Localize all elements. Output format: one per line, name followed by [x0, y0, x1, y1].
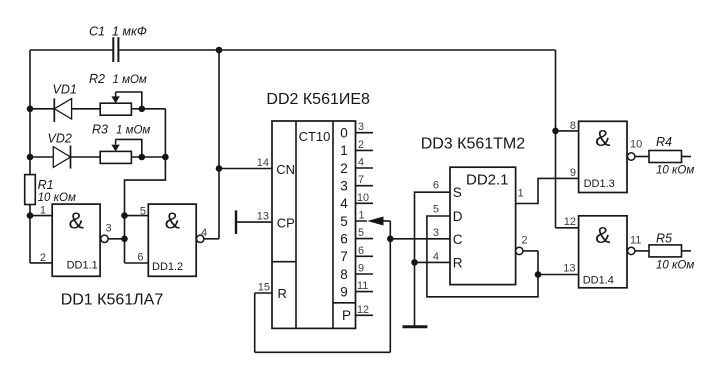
- svg-text:&: &: [595, 222, 610, 248]
- wire R3 right: [131, 156, 165, 158]
- svg-text:DD1.4: DD1.4: [583, 275, 614, 287]
- input bar at CP: [235, 210, 237, 234]
- wire pin12 DD1.4: [556, 227, 579, 229]
- wire R5 out: [682, 250, 692, 252]
- svg-text:7: 7: [358, 174, 364, 186]
- wire left vertical lower: [29, 205, 31, 263]
- svg-text:S: S: [453, 185, 462, 200]
- wire left vertical upper: [29, 50, 31, 175]
- gate DD1.4: [563, 216, 641, 288]
- svg-text:DD2 К561ИЕ8: DD2 К561ИЕ8: [266, 91, 370, 108]
- svg-text:3: 3: [340, 179, 348, 194]
- svg-text:C1: C1: [89, 25, 105, 39]
- wire from arrow to vertical: [381, 220, 390, 222]
- wire R4 out: [682, 156, 692, 158]
- resistor R4: [649, 135, 694, 177]
- svg-text:R: R: [453, 256, 463, 271]
- svg-text:0: 0: [340, 126, 348, 141]
- wire top rail right segment: [119, 49, 555, 51]
- svg-text:11: 11: [630, 235, 641, 247]
- svg-text:4: 4: [340, 196, 348, 211]
- svg-text:10 кОм: 10 кОм: [38, 192, 76, 204]
- svg-text:10: 10: [357, 192, 369, 204]
- node rail/x219: [216, 47, 223, 54]
- wire D pin5 feedback: [427, 216, 538, 297]
- wire R pin15: [255, 292, 272, 294]
- pin 10 bubble: [628, 153, 635, 160]
- diode VD1: [53, 83, 77, 123]
- svg-text:1 мОм: 1 мОм: [116, 125, 150, 137]
- svg-text:9: 9: [570, 167, 576, 179]
- resistor R2 (trimmer): [89, 72, 147, 115]
- wire S pin6 DD3 to ground rail: [415, 192, 451, 262]
- svg-text:10 кОм: 10 кОм: [656, 260, 694, 272]
- node R3 right link: [162, 154, 169, 161]
- svg-text:7: 7: [340, 249, 348, 264]
- svg-text:12: 12: [357, 304, 369, 316]
- wire pin1 DD1.1: [30, 215, 52, 217]
- svg-text:13: 13: [257, 211, 269, 223]
- svg-text:P: P: [342, 308, 351, 323]
- wire R3 wiper tap: [116, 139, 142, 157]
- wire pin3 output DD1.1: [108, 238, 124, 240]
- wire R2 wiper tap: [116, 92, 142, 109]
- svg-text:VD1: VD1: [53, 83, 77, 97]
- ground symbol: [403, 325, 428, 328]
- svg-text:6: 6: [433, 180, 439, 192]
- flip-flop DD3 (DD2.1): [433, 167, 528, 284]
- wire pin2 output DD3: [523, 250, 538, 252]
- wire VD2 row left: [30, 156, 53, 158]
- wire VD1 anode row: [30, 108, 54, 110]
- wire vertical x390: [389, 221, 391, 352]
- svg-text:5: 5: [340, 214, 348, 229]
- wire R2 right: [131, 108, 165, 110]
- svg-text:6: 6: [340, 231, 348, 246]
- node R1 bottom / pin1: [27, 212, 34, 219]
- svg-text:11: 11: [357, 280, 368, 292]
- wire top rail left segment: [30, 49, 112, 51]
- node S/R ground branch: [411, 259, 418, 266]
- wire bottom return: [255, 351, 391, 353]
- arrow at output 5 of DD2: [367, 217, 383, 226]
- svg-text:2: 2: [340, 161, 348, 176]
- svg-text:3: 3: [106, 223, 112, 235]
- svg-text:1: 1: [359, 210, 365, 222]
- svg-text:DD1 К561ЛА7: DD1 К561ЛА7: [61, 292, 164, 309]
- wire pin4 output DD1.2: [204, 238, 219, 240]
- svg-text:12: 12: [564, 216, 576, 228]
- svg-text:1: 1: [518, 188, 524, 200]
- wire pin10 to R4: [635, 156, 649, 158]
- node pin5 branch: [121, 212, 128, 219]
- svg-text:R: R: [278, 286, 287, 301]
- svg-text:&: &: [69, 208, 84, 234]
- wire DD2 output stubs 0-9 and P: [356, 133, 374, 316]
- svg-text:DD1.2: DD1.2: [152, 261, 183, 273]
- svg-text:&: &: [165, 208, 180, 234]
- svg-text:1: 1: [40, 205, 46, 217]
- resistor R5: [649, 232, 694, 272]
- diode VD2: [48, 132, 72, 169]
- wire pin5 DD1.2: [125, 215, 149, 217]
- svg-text:DD1.3: DD1.3: [584, 178, 615, 190]
- svg-text:3: 3: [433, 227, 439, 239]
- wire pin2 DD1.1: [30, 262, 52, 264]
- node C/counter reset branch: [387, 236, 394, 243]
- gate DD1.3: [570, 120, 642, 193]
- wire VD1 to R2: [72, 108, 101, 110]
- svg-text:5: 5: [140, 206, 146, 218]
- node VD2 row left: [27, 154, 34, 161]
- svg-text:9: 9: [358, 263, 364, 275]
- wire pin1 DD3 to pin9 DD1.3: [516, 178, 579, 203]
- wire vertical R2-R3 right link: [164, 109, 166, 157]
- svg-text:DD1.1: DD1.1: [67, 260, 98, 272]
- svg-text:R1: R1: [38, 178, 54, 192]
- svg-text:2: 2: [522, 235, 528, 247]
- capacitor C1: [89, 25, 147, 63]
- svg-text:R4: R4: [656, 135, 672, 149]
- pin 3 bubble: [101, 235, 108, 242]
- svg-text:1 мОм: 1 мОм: [113, 74, 147, 86]
- wire feedback down to DD1.2 input: [125, 157, 166, 263]
- svg-text:2: 2: [358, 139, 364, 151]
- svg-text:CP: CP: [277, 215, 295, 230]
- wire to C input DD3: [390, 238, 450, 240]
- counter DD2 body: [272, 121, 369, 328]
- wire pin6 DD1.2: [125, 262, 149, 264]
- resistor R3 (trimmer): [92, 123, 150, 164]
- svg-text:VD2: VD2: [48, 132, 72, 146]
- pin 4 bubble: [197, 235, 204, 242]
- svg-text:D: D: [453, 209, 463, 224]
- node R3 right / tap: [139, 154, 146, 161]
- svg-text:10 кОм: 10 кОм: [656, 165, 694, 177]
- svg-text:15: 15: [258, 282, 270, 294]
- svg-text:1 мкФ: 1 мкФ: [112, 25, 147, 39]
- node pin3/pin6 branch: [121, 236, 128, 243]
- svg-text:8: 8: [340, 267, 348, 282]
- wire pin8 DD1.3: [556, 130, 579, 132]
- wire VD2 to R3: [71, 156, 101, 158]
- svg-text:2: 2: [40, 252, 46, 264]
- svg-text:&: &: [595, 125, 610, 151]
- svg-text:3: 3: [358, 121, 364, 133]
- wire CP pin13: [236, 221, 272, 223]
- svg-text:10: 10: [630, 139, 642, 151]
- node pin2/pin13 branch: [535, 271, 542, 278]
- gate DD1.1: [40, 204, 112, 276]
- svg-text:5: 5: [433, 203, 439, 215]
- gate DD1.2: [137, 204, 207, 276]
- wire CN pin14: [219, 168, 272, 170]
- wire pin13 DD1.4: [538, 274, 579, 276]
- node R2 right / tap: [139, 106, 146, 113]
- svg-text:13: 13: [563, 263, 575, 275]
- svg-text:5: 5: [358, 227, 364, 239]
- svg-text:R2: R2: [89, 72, 105, 86]
- wire vertical x555 rail to pin12: [555, 50, 557, 228]
- svg-text:8: 8: [570, 120, 576, 132]
- svg-text:6: 6: [137, 252, 143, 264]
- wire vertical x219 pin4 to rail: [218, 50, 220, 239]
- wire bottom up to R pin15: [254, 293, 256, 352]
- wire pin11 to R5: [635, 250, 649, 252]
- svg-text:CT10: CT10: [299, 129, 331, 144]
- svg-text:1: 1: [340, 143, 348, 158]
- node VD1 row left: [27, 106, 34, 113]
- svg-text:CN: CN: [276, 162, 295, 177]
- node pin8 branch: [552, 128, 559, 135]
- pin 11 bubble: [628, 247, 635, 254]
- svg-text:4: 4: [201, 227, 207, 239]
- svg-text:6: 6: [358, 245, 364, 257]
- svg-text:4: 4: [358, 157, 364, 169]
- svg-text:R3: R3: [92, 123, 108, 137]
- svg-text:4: 4: [433, 251, 439, 263]
- svg-text:9: 9: [340, 284, 348, 299]
- svg-text:C: C: [453, 232, 463, 247]
- wire R pin4 DD3: [415, 261, 451, 263]
- svg-text:DD3 К561ТМ2: DD3 К561ТМ2: [421, 136, 526, 153]
- svg-text:DD2.1: DD2.1: [466, 172, 509, 189]
- svg-text:14: 14: [257, 157, 269, 169]
- wire ground stem: [414, 262, 416, 326]
- node CN branch: [216, 165, 223, 172]
- svg-text:R5: R5: [656, 232, 672, 246]
- pin 2 bubble: [516, 247, 523, 254]
- resistor R1: [25, 175, 76, 205]
